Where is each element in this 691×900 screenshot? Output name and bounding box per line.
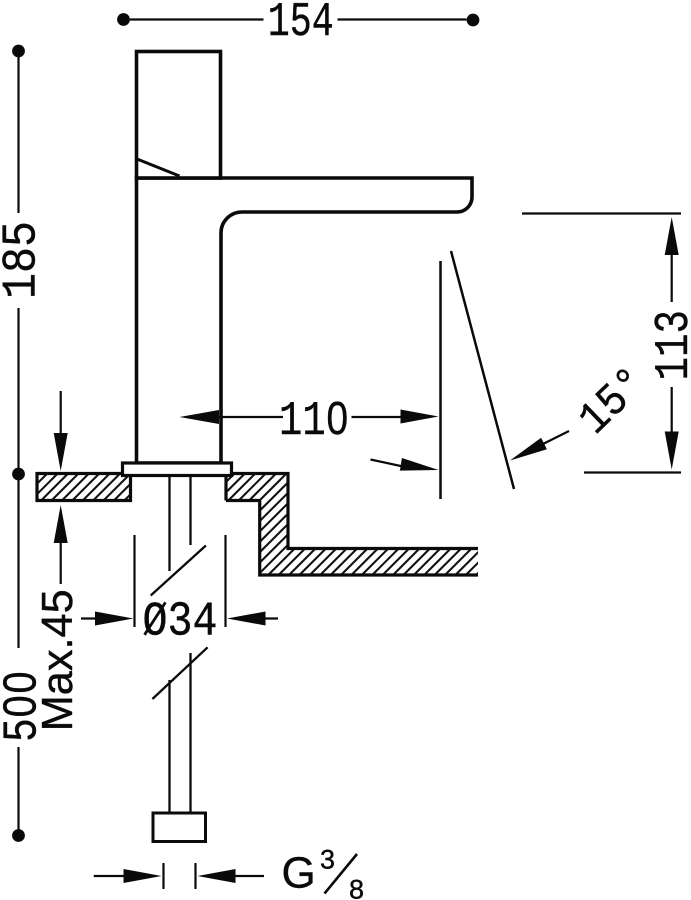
svg-text:185: 185 [0, 221, 50, 299]
svg-text:3: 3 [320, 845, 335, 875]
svg-text:Ø34: Ø34 [143, 596, 218, 650]
svg-text:8: 8 [349, 875, 364, 900]
svg-text:Max.45: Max.45 [33, 589, 82, 731]
svg-text:113: 113 [648, 310, 691, 381]
svg-text:G: G [282, 849, 316, 898]
svg-text:154: 154 [268, 0, 334, 50]
